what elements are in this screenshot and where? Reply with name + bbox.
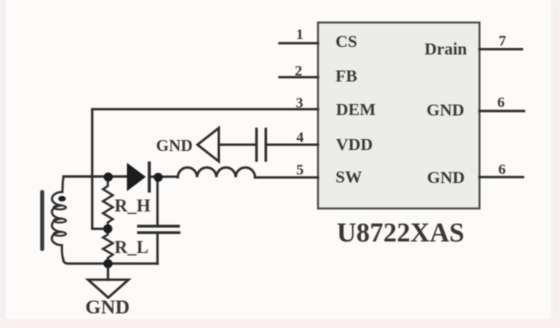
svg-text:GND: GND: [156, 136, 193, 155]
svg-text:7: 7: [499, 34, 507, 50]
svg-text:R_L: R_L: [115, 237, 149, 257]
svg-text:FB: FB: [336, 67, 358, 86]
svg-text:1: 1: [296, 27, 304, 43]
svg-text:CS: CS: [336, 32, 358, 51]
svg-text:6: 6: [498, 162, 506, 178]
svg-text:DEM: DEM: [336, 100, 376, 119]
svg-text:VDD: VDD: [336, 135, 373, 154]
svg-text:GND: GND: [85, 297, 129, 319]
svg-text:3: 3: [296, 96, 304, 112]
svg-text:4: 4: [296, 130, 304, 146]
svg-text:2: 2: [295, 64, 303, 80]
svg-text:SW: SW: [336, 168, 362, 187]
svg-text:6: 6: [497, 95, 505, 111]
svg-text:GND: GND: [427, 168, 465, 187]
svg-text:Drain: Drain: [425, 40, 468, 59]
svg-text:R_H: R_H: [115, 196, 151, 216]
svg-text:5: 5: [296, 163, 304, 179]
svg-text:U8722XAS: U8722XAS: [337, 218, 465, 248]
svg-text:GND: GND: [427, 101, 465, 120]
